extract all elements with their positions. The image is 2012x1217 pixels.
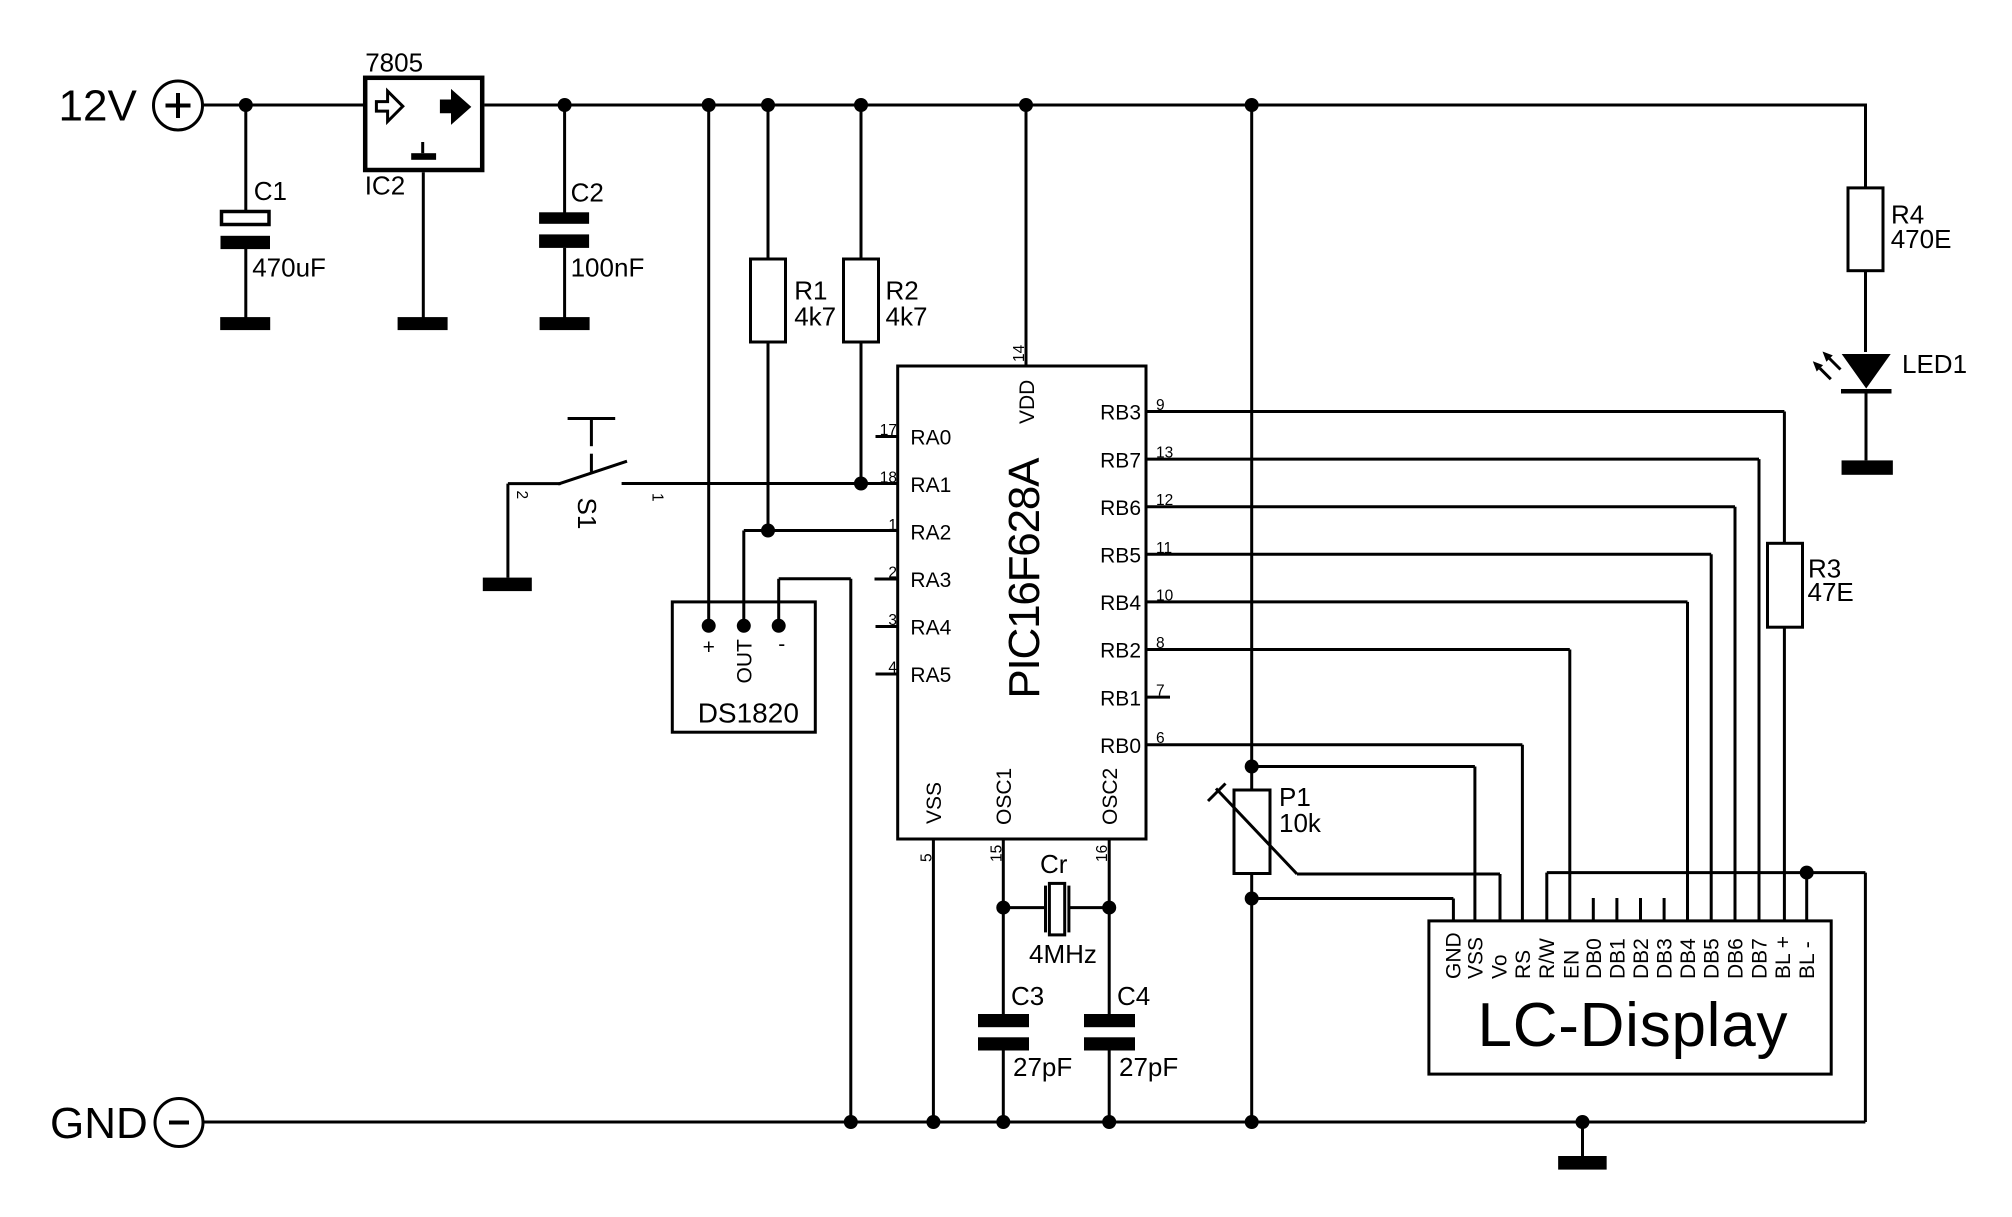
svg-text:RA2: RA2	[910, 522, 951, 545]
svg-text:7805: 7805	[365, 48, 423, 78]
svg-text:DB0: DB0	[1583, 938, 1606, 979]
wire down to VSS pin	[1473, 767, 1476, 922]
pin stub RA4	[876, 625, 898, 628]
svg-text:DB4: DB4	[1677, 938, 1700, 979]
svg-text:OSC2: OSC2	[1099, 768, 1122, 825]
pin stub DB3	[1663, 898, 1666, 922]
node VDD junction	[1019, 98, 1033, 112]
wire down to R3	[1783, 412, 1786, 544]
svg-text:4MHz: 4MHz	[1029, 939, 1097, 969]
svg-text:RS: RS	[1512, 950, 1535, 979]
wire 5V to LCD VSS	[1252, 765, 1475, 768]
wire to C2	[563, 105, 566, 213]
wire to LCD ground symbol	[1581, 1122, 1584, 1156]
svg-text:470uF: 470uF	[252, 253, 326, 283]
switch S1 dashed actuator	[590, 454, 593, 472]
svg-text:DB1: DB1	[1606, 938, 1629, 979]
svg-text:C2: C2	[571, 178, 604, 208]
wire S1 pole	[508, 482, 561, 485]
wire DS1820 minus to ground rail	[849, 579, 852, 1122]
wire down to R/W pin	[1545, 873, 1548, 922]
svg-text:27pF: 27pF	[1013, 1052, 1072, 1082]
wire DS1820 minus across	[779, 577, 851, 580]
node OSC2 crystal junction	[1102, 901, 1116, 915]
wire S1 to RA1	[622, 482, 898, 485]
wire DS1820 minus up	[777, 579, 780, 626]
wire RB3 to R3	[1146, 410, 1784, 413]
node ground C4	[1102, 1115, 1116, 1129]
wire RB2	[1146, 648, 1570, 651]
svg-text:RA1: RA1	[910, 474, 951, 497]
svg-text:DB3: DB3	[1654, 938, 1677, 979]
wire RB6 to DB6	[1734, 507, 1737, 922]
svg-text:EN: EN	[1560, 950, 1583, 979]
wire S1 to ground	[506, 484, 509, 578]
svg-text:+: +	[703, 636, 715, 659]
ground	[483, 578, 532, 592]
pin - of DS1820	[772, 619, 786, 633]
capacitor C2 100nF	[539, 212, 589, 224]
node BL- junction	[1800, 866, 1814, 880]
node 12V supply terminal	[154, 81, 203, 130]
svg-text:2: 2	[513, 491, 530, 500]
ground	[1558, 1156, 1607, 1170]
svg-text:4k7: 4k7	[794, 301, 836, 331]
wire C4 to ground rail	[1108, 1051, 1111, 1123]
wire P1 bottom to ground rail	[1250, 874, 1253, 1123]
wire rail to R1	[767, 105, 770, 259]
svg-text:1: 1	[649, 493, 666, 502]
svg-text:-: -	[778, 633, 785, 656]
svg-text:100nF: 100nF	[571, 253, 645, 283]
svg-text:RB5: RB5	[1100, 545, 1141, 568]
svg-text:BL -: BL -	[1796, 941, 1819, 979]
wire down to BL- pin	[1805, 873, 1808, 922]
svg-text:RB3: RB3	[1100, 402, 1141, 425]
wire C2 to ground	[563, 248, 566, 318]
wire rail to DS1820 plus pin	[707, 105, 710, 626]
resistor R4 470E	[1848, 188, 1883, 271]
svg-text:OSC1: OSC1	[993, 768, 1016, 825]
wire 12V to 7805 input	[203, 104, 364, 107]
svg-text:DB2: DB2	[1630, 938, 1653, 979]
wire LED1 to ground	[1865, 394, 1868, 461]
svg-text:RB6: RB6	[1100, 497, 1141, 520]
pin + of DS1820	[702, 619, 716, 633]
switch S1 blade	[558, 461, 627, 484]
svg-text:BL +: BL +	[1772, 936, 1795, 979]
svg-text:OUT: OUT	[734, 639, 757, 684]
switch S1 plunger	[568, 417, 616, 420]
svg-text:LED1: LED1	[1902, 349, 1967, 379]
node P1 bottom junction	[1245, 892, 1259, 906]
wire down to ground rail	[1864, 873, 1867, 1122]
wire OSC1 down	[1002, 839, 1005, 1014]
7805 input arrow (open)	[376, 91, 402, 121]
resistor R3 47E	[1768, 543, 1803, 627]
svg-text:10k: 10k	[1279, 808, 1322, 838]
node RA2 junction with R1	[761, 524, 775, 538]
svg-text:DS1820: DS1820	[698, 698, 799, 729]
svg-text:C1: C1	[254, 176, 287, 206]
sensor DS1820 box	[672, 602, 815, 732]
wire down to GND pin	[1452, 899, 1455, 922]
wire RB2 to EN	[1568, 650, 1571, 922]
svg-text:RA3: RA3	[910, 569, 951, 592]
wire RB6	[1146, 505, 1735, 508]
node C1 junction	[239, 98, 253, 112]
crystal Cr 4MHz	[1003, 906, 1044, 909]
svg-text:S1: S1	[572, 498, 602, 530]
wire OSC2 down	[1108, 839, 1111, 1014]
svg-text:DB7: DB7	[1748, 938, 1771, 979]
node R2 top junction	[854, 98, 868, 112]
svg-text:C4: C4	[1117, 981, 1150, 1011]
wire RB7	[1146, 458, 1759, 461]
svg-text:12V: 12V	[59, 82, 138, 131]
node C2 junction	[558, 98, 572, 112]
node R1 top junction	[761, 98, 775, 112]
LED1 diode	[1842, 354, 1891, 389]
svg-text:18: 18	[880, 470, 897, 487]
svg-text:R/W: R/W	[1536, 938, 1559, 979]
svg-text:RB7: RB7	[1100, 449, 1141, 472]
node OSC1 crystal junction	[996, 901, 1010, 915]
pin stub DB0	[1592, 898, 1595, 922]
wire to LCD GND pin	[1252, 897, 1454, 900]
resistor R2 4k7	[844, 259, 879, 342]
potentiometer P1 10k	[1234, 790, 1270, 874]
capacitor C3 27pF	[978, 1014, 1029, 1027]
pin stub DB1	[1615, 898, 1618, 922]
wire rail to VDD pin 14	[1025, 105, 1028, 366]
ground	[398, 317, 448, 330]
wire rail down to R4	[1864, 104, 1867, 189]
wire RB5 to DB5	[1710, 554, 1713, 922]
node RA1 junction with R2	[854, 477, 868, 491]
wire R3 to BL+	[1783, 627, 1786, 922]
wire down to DS1820 OUT	[742, 531, 745, 626]
wire RB7 to DB7	[1758, 459, 1761, 922]
wire C1 to ground	[244, 249, 247, 318]
voltage regulator IC2 7805	[365, 78, 482, 170]
node ground P1	[1245, 1115, 1259, 1129]
svg-text:27pF: 27pF	[1119, 1052, 1178, 1082]
pin stub RA5	[876, 673, 898, 676]
resistor R1 4k7	[751, 259, 786, 342]
wire 7805 gnd pin to ground	[422, 172, 425, 317]
svg-text:VSS: VSS	[923, 782, 946, 824]
svg-text:RB0: RB0	[1100, 735, 1141, 758]
ground	[1842, 460, 1893, 474]
node ground LCD	[1576, 1115, 1590, 1129]
node ground DS1820 minus	[844, 1115, 858, 1129]
7805 output arrow (filled)	[440, 89, 471, 125]
pin stub RB1	[1146, 696, 1170, 699]
wire R1 to RA2 net	[767, 342, 770, 531]
capacitor C1 470uF	[222, 212, 270, 225]
wire VSS to ground rail	[932, 839, 935, 1122]
svg-text:VSS: VSS	[1465, 937, 1488, 979]
svg-text:DB5: DB5	[1701, 938, 1724, 979]
wire RB4	[1146, 600, 1688, 603]
svg-text:LC-Display: LC-Display	[1478, 991, 1789, 1060]
pin OUT of DS1820	[737, 619, 751, 633]
svg-text:14: 14	[1011, 344, 1028, 362]
node P1 supply junction	[1245, 98, 1259, 112]
svg-text:GND: GND	[1443, 932, 1466, 979]
7805 internal ground symbol	[421, 142, 424, 153]
svg-text:PIC16F628A: PIC16F628A	[1000, 457, 1049, 699]
svg-text:1: 1	[888, 517, 897, 534]
wire 5V rail	[485, 104, 1866, 107]
node P1 top junction	[1245, 760, 1259, 774]
wire RB5	[1146, 553, 1711, 556]
node ground VSS	[926, 1115, 940, 1129]
wire C3 to ground rail	[1002, 1051, 1005, 1123]
LED1 light arrows	[1830, 359, 1841, 370]
svg-text:RA4: RA4	[910, 617, 951, 640]
svg-text:47E: 47E	[1808, 577, 1854, 607]
svg-text:IC2: IC2	[365, 171, 405, 201]
P1 wiper arrow	[1216, 789, 1297, 875]
pin stub RA0	[876, 435, 898, 438]
wire down to Vo pin	[1499, 874, 1502, 922]
ground	[220, 317, 270, 330]
wire R2 to RA1 net	[860, 342, 863, 484]
node GND supply terminal	[155, 1099, 203, 1147]
wire rail to R2	[860, 105, 863, 259]
svg-text:DB6: DB6	[1725, 938, 1748, 979]
node ground C3	[996, 1115, 1010, 1129]
svg-text:RA0: RA0	[910, 427, 951, 450]
wire R/W BL- ground net	[1547, 871, 1866, 874]
wire RB4 to DB4	[1686, 602, 1689, 922]
microcontroller U1 PIC16F628A box	[898, 366, 1146, 839]
svg-text:RB1: RB1	[1100, 687, 1141, 710]
module LC-Display box	[1429, 921, 1831, 1074]
svg-text:4k7: 4k7	[886, 301, 928, 331]
wire RB0	[1146, 743, 1522, 746]
wire ground rail	[203, 1121, 1865, 1124]
wire rail down to P1	[1250, 105, 1253, 790]
svg-text:RA5: RA5	[910, 664, 951, 687]
svg-text:GND: GND	[50, 1099, 148, 1148]
svg-text:470E: 470E	[1891, 224, 1952, 254]
wire RA2	[744, 529, 898, 532]
node DS1820 plus junction	[702, 98, 716, 112]
wire wiper to Vo	[1297, 873, 1500, 876]
wire to C1	[244, 105, 247, 212]
wire RB0 to RS	[1521, 745, 1524, 922]
svg-text:C3: C3	[1011, 981, 1044, 1011]
svg-text:Cr: Cr	[1040, 849, 1068, 879]
svg-text:Vo: Vo	[1488, 954, 1511, 979]
svg-text:RB4: RB4	[1100, 592, 1141, 615]
pin stub DB2	[1639, 898, 1642, 922]
svg-text:RB2: RB2	[1100, 640, 1141, 663]
pin stub RA3	[875, 578, 898, 581]
wire R4 to LED1	[1864, 271, 1867, 352]
svg-text:VDD: VDD	[1016, 380, 1039, 424]
ground	[540, 317, 590, 330]
capacitor C4 27pF	[1084, 1014, 1135, 1027]
